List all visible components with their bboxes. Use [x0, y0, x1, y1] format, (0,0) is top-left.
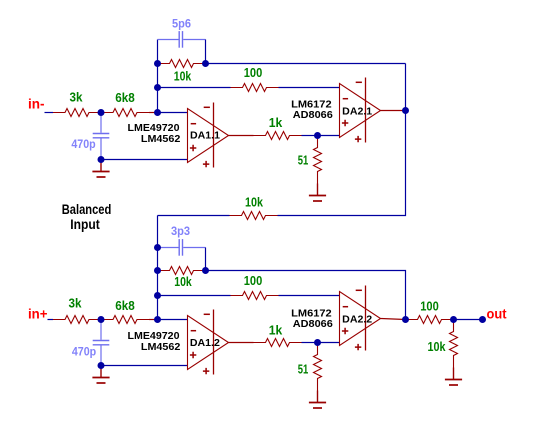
junction node fb1 left	[154, 60, 161, 67]
junction node R11/vertical	[154, 316, 161, 323]
junction node R10/R11/C4	[98, 316, 105, 323]
capacitor C4 470p	[93, 320, 110, 366]
svg-text:DA2.2: DA2.2	[342, 314, 372, 325]
junction node 100a left	[154, 84, 161, 91]
junction node out1	[402, 107, 409, 114]
junction out terminal	[479, 316, 486, 323]
resistor R8 10k feedback	[158, 267, 206, 275]
svg-text:470p: 470p	[72, 344, 96, 358]
ground GND2	[309, 184, 326, 202]
resistor R7 10k interstage	[230, 212, 278, 220]
junction node out3	[450, 316, 457, 323]
wire DA1.1 +input	[101, 159, 188, 161]
svg-text:100: 100	[420, 299, 439, 314]
junction node fb2 left	[154, 267, 161, 274]
wire DA2.1 output	[381, 110, 406, 112]
junction node C4/ground	[98, 362, 105, 369]
wire DA1.2 +input	[101, 365, 188, 367]
svg-text:51: 51	[298, 362, 309, 377]
resistor R1 3k	[53, 109, 101, 117]
wire DA1.1 -input	[158, 112, 188, 114]
svg-text:out: out	[487, 306, 507, 322]
svg-text:Balanced: Balanced	[62, 201, 112, 217]
wire DA1.2 -input	[158, 319, 188, 321]
op-amp DA2.1	[340, 78, 381, 143]
svg-text:DA1.1: DA1.1	[190, 130, 220, 141]
junction node R12/R13	[314, 339, 321, 346]
svg-text:Input: Input	[70, 216, 100, 232]
junction node R1/R2/C1	[98, 109, 105, 116]
resistor R4 100	[231, 84, 279, 92]
svg-text:1k: 1k	[269, 115, 283, 130]
wire mid link left	[158, 215, 230, 217]
svg-text:100: 100	[244, 65, 263, 80]
wire R2 lead to node	[149, 112, 158, 114]
wire DA2.2 output	[381, 319, 406, 320]
junction node out2	[402, 316, 409, 323]
svg-text:3k: 3k	[69, 296, 83, 311]
svg-text:100: 100	[244, 273, 263, 288]
svg-text:51: 51	[298, 153, 309, 168]
wire fb1 top run	[206, 63, 406, 65]
wire R11 lead to node	[149, 319, 158, 321]
junction node C1/ground	[98, 156, 105, 163]
resistor R5 1k	[254, 132, 302, 140]
wire DA1.2 output	[229, 342, 254, 344]
op-amp DA1.2	[188, 310, 229, 375]
svg-text:LME49720: LME49720	[128, 331, 180, 342]
svg-text:3k: 3k	[70, 90, 84, 105]
op-amp DA1.1	[188, 103, 229, 168]
junction node R2/vertical	[154, 109, 161, 116]
wire C3 right drop	[205, 248, 207, 271]
svg-text:6k8: 6k8	[115, 90, 135, 105]
wire DA2.2 +input	[318, 342, 340, 344]
svg-text:1k: 1k	[269, 322, 283, 337]
resistor R14 100 output	[406, 316, 454, 324]
wire R9 to DA2.2 -input	[279, 295, 340, 297]
wire right vertical + mid link	[278, 64, 406, 216]
svg-text:DA1.2: DA1.2	[190, 338, 220, 349]
resistor R9 100	[231, 292, 279, 300]
resistor R11 6k8	[101, 316, 149, 324]
wire in- stub	[45, 112, 54, 114]
svg-text:10k: 10k	[245, 195, 264, 210]
resistor R2 6k8	[101, 109, 149, 117]
svg-text:in-: in-	[28, 96, 45, 112]
svg-text:470p: 470p	[71, 137, 95, 151]
svg-text:DA2.1: DA2.1	[342, 106, 372, 117]
svg-text:10k: 10k	[174, 274, 192, 289]
svg-text:LM6172: LM6172	[291, 308, 332, 319]
svg-text:AD8066: AD8066	[293, 319, 333, 330]
resistor R3 10k feedback	[158, 60, 206, 68]
resistor R15 10k output	[450, 320, 458, 368]
junction node 100b left	[154, 292, 161, 299]
wire left vertical (bottom section)	[157, 216, 159, 320]
wire in+ stub	[48, 319, 54, 321]
resistor R6 51	[314, 136, 322, 184]
wire DA2.1 +input	[318, 135, 340, 137]
wire DA1.1 output	[229, 135, 254, 137]
svg-text:LME49720: LME49720	[128, 123, 180, 134]
capacitor C1 470p	[93, 113, 110, 160]
wire left vertical (top section)	[157, 40, 159, 113]
wire wire to R9	[158, 295, 231, 297]
svg-text:LM4562: LM4562	[141, 134, 181, 145]
ground GND5	[445, 368, 462, 386]
svg-text:10k: 10k	[174, 69, 192, 84]
wire wire to R4	[158, 87, 231, 89]
resistor R13 51	[314, 343, 322, 391]
junction node C3 left	[154, 244, 161, 251]
resistor R10 3k	[53, 316, 101, 324]
wire C2 right drop	[205, 40, 207, 64]
wire fb2 run	[206, 271, 406, 320]
junction node fb1 right	[202, 60, 209, 67]
ground GND1	[92, 160, 109, 178]
svg-text:in+: in+	[28, 306, 48, 322]
wire R5 to node	[302, 135, 318, 137]
svg-text:AD8066: AD8066	[293, 110, 333, 121]
capacitor C2 5p6	[158, 31, 206, 48]
junction node fb2 right	[202, 267, 209, 274]
wire R4 to DA2.1 -input	[279, 87, 340, 89]
svg-text:LM4562: LM4562	[141, 342, 181, 353]
ground GND3	[92, 366, 109, 384]
wire R12 to node	[302, 342, 318, 344]
ground GND4	[309, 391, 326, 409]
svg-text:3p3: 3p3	[171, 224, 190, 238]
wire wire to out pin	[454, 319, 483, 321]
capacitor C3 3p3	[158, 239, 206, 256]
svg-text:5p6: 5p6	[172, 17, 191, 31]
resistor R12 1k	[254, 339, 302, 347]
op-amp DA2.2	[340, 286, 381, 351]
svg-text:6k8: 6k8	[115, 298, 135, 313]
svg-text:10k: 10k	[428, 339, 447, 354]
junction node R5/R6	[314, 132, 321, 139]
